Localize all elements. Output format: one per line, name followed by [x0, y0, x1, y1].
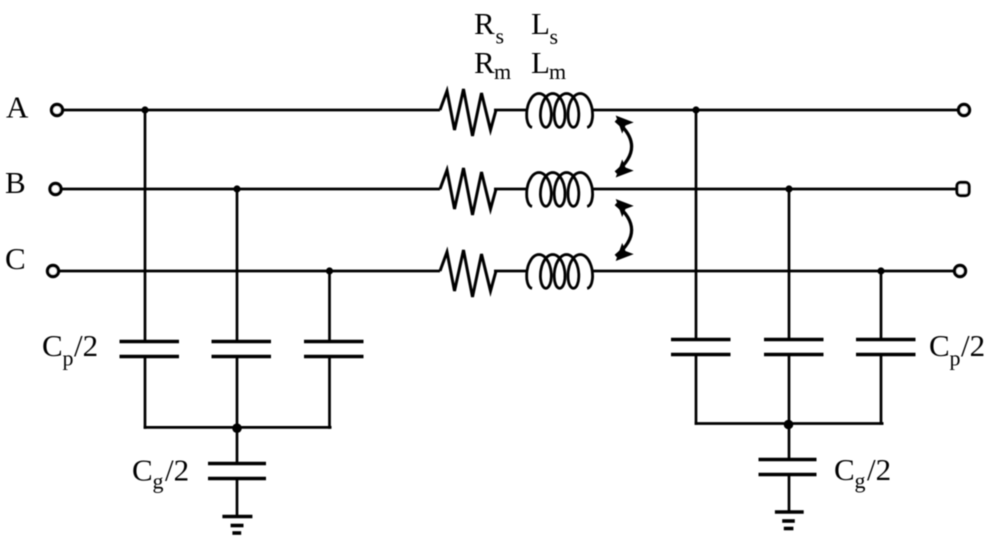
wire B resistor-inductor [494, 188, 527, 191]
capacitor Cg/2 right: stub [788, 424, 791, 458]
bus left [144, 426, 332, 429]
node dot line C right [877, 267, 884, 274]
capacitor Cp/2 phase C right: plates [856, 338, 916, 342]
node dot line B right [785, 185, 792, 192]
wire line C right [593, 270, 954, 273]
node dot line A left [141, 106, 148, 113]
svg-text:m: m [549, 59, 566, 84]
wire v1 lower [144, 357, 147, 429]
svg-text:g: g [855, 468, 866, 493]
inductor phase B [527, 173, 593, 207]
svg-text:/2: /2 [74, 328, 98, 363]
terminal C right [955, 266, 966, 277]
node dot line C left [326, 267, 333, 274]
wire line B right [593, 188, 957, 191]
capacitor Cg/2 left: stub [236, 428, 239, 462]
inductor phase C [527, 255, 593, 289]
wire v1 upper [144, 110, 147, 340]
wire v4 lower [695, 355, 698, 425]
svg-text:B: B [5, 165, 26, 200]
svg-text:L: L [531, 6, 550, 41]
bus right [695, 422, 884, 425]
mutual coupling arrow B-C [616, 204, 632, 256]
wire A resistor-inductor [494, 109, 527, 112]
svg-text:/2: /2 [961, 328, 985, 363]
svg-text:p: p [950, 346, 961, 371]
wire v6 upper [880, 271, 883, 338]
svg-text:C: C [929, 328, 950, 363]
svg-text:m: m [494, 59, 511, 84]
terminal A right [959, 105, 970, 116]
wire line B left [61, 188, 440, 191]
wire line C left [59, 270, 440, 273]
svg-text:s: s [496, 24, 505, 49]
inductor Ls phase A [527, 94, 593, 128]
wire line A right [593, 109, 958, 112]
Cg/2 right lower stub [788, 475, 791, 513]
capacitor Cp/2 phase B left: plates [212, 340, 272, 344]
svg-text:p: p [63, 346, 74, 371]
svg-text:L: L [531, 45, 550, 80]
wire v6 lower [880, 355, 883, 425]
resistor phase C [440, 250, 496, 297]
resistor Rs phase A [440, 89, 496, 136]
ground left [222, 517, 252, 534]
svg-text:/2: /2 [867, 452, 891, 487]
svg-text:C: C [42, 328, 63, 363]
wire v3 upper [328, 271, 331, 340]
wire v2 upper [236, 189, 239, 340]
svg-text:R: R [474, 45, 495, 80]
svg-text:g: g [153, 469, 164, 494]
terminal B right (square) [957, 183, 969, 196]
capacitor Cp/2 phase B right: plates [764, 338, 824, 342]
bus node dot right [784, 420, 794, 430]
ground right [775, 512, 804, 529]
svg-text:R: R [474, 6, 495, 41]
svg-text:C: C [5, 241, 26, 276]
Cg/2 left plates [208, 462, 266, 466]
bus node dot left [232, 423, 242, 433]
resistor phase B [440, 168, 496, 215]
svg-text:s: s [550, 24, 559, 49]
wire v2 lower [236, 357, 239, 429]
mutual coupling arrow A-B [616, 121, 632, 173]
Cg/2 right plates [759, 458, 817, 462]
terminal C left [48, 266, 59, 277]
Cg/2 left lower stub [236, 479, 239, 517]
wire v3 lower [328, 357, 331, 429]
capacitor Cp/2 phase A right: plates [671, 338, 731, 342]
svg-text:/2: /2 [165, 453, 189, 488]
svg-text:A: A [6, 90, 29, 125]
wire line A left [63, 109, 440, 112]
wire v5 upper [788, 189, 791, 338]
node dot line B left [233, 185, 240, 192]
wire C resistor-inductor [494, 270, 527, 273]
node dot line A right [692, 106, 699, 113]
terminal B left [50, 184, 61, 195]
wire v4 upper [695, 110, 698, 338]
svg-text:C: C [834, 452, 855, 487]
capacitor Cp/2 phase A left: plates [120, 340, 180, 344]
svg-text:C: C [132, 453, 153, 488]
wire v5 lower [788, 355, 791, 425]
capacitor Cp/2 phase C left: plates [304, 340, 364, 344]
terminal A left [52, 105, 63, 116]
